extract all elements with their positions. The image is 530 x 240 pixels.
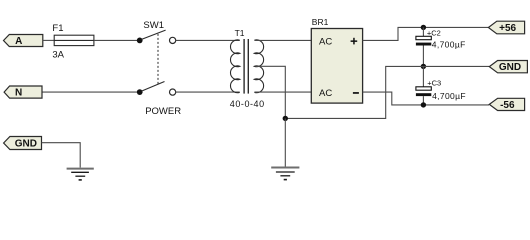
- wire T1 secondary bottom to BR1: [254, 91, 311, 93]
- svg-text:GND: GND: [499, 62, 521, 73]
- svg-text:POWER: POWER: [145, 106, 181, 117]
- svg-text:+C2: +C2: [427, 29, 441, 38]
- svg-text:4,700µF: 4,700µF: [432, 91, 466, 101]
- svg-text:T1: T1: [235, 28, 245, 38]
- port N: [4, 86, 42, 99]
- transformer T1 core: [244, 39, 248, 94]
- svg-text:-56: -56: [500, 100, 515, 111]
- wire GND rail to riser: [285, 66, 489, 118]
- svg-text:4,700µF: 4,700µF: [432, 39, 466, 49]
- transformer T1 primary winding: [230, 40, 239, 93]
- switch SW1 mechanical link: [157, 34, 159, 86]
- ground center: [271, 168, 299, 180]
- svg-text:SW1: SW1: [143, 20, 164, 31]
- transformer T1 secondary winding: [254, 40, 263, 93]
- port GND left: [4, 137, 42, 150]
- junction -56 rail / C3: [421, 102, 426, 107]
- wire BR1 - output to -56 rail: [363, 92, 489, 105]
- fuse F1: [54, 35, 94, 45]
- port A: [4, 35, 43, 48]
- junction +56 rail / C2: [421, 25, 426, 30]
- junction GND rail / C2 C3: [421, 64, 426, 69]
- capacitor C2: [416, 27, 431, 66]
- svg-text:+56: +56: [499, 23, 516, 34]
- wire GND left to ground: [42, 143, 81, 168]
- wire SW1 pole 2 to T1 primary: [176, 91, 240, 93]
- wire SW1 pole 1 to T1 primary: [176, 39, 240, 41]
- junction T1 center tap / ground: [283, 116, 288, 121]
- port +56: [488, 21, 524, 34]
- port -56: [489, 98, 524, 111]
- switch SW1 pole 2: [137, 82, 176, 96]
- svg-text:N: N: [15, 88, 22, 99]
- svg-text:AC: AC: [319, 36, 332, 47]
- ground left: [67, 169, 94, 180]
- port GND right: [489, 61, 527, 74]
- pin label minus: [353, 92, 359, 94]
- svg-text:BR1: BR1: [312, 17, 329, 27]
- bridge rectifier BR1: [311, 29, 362, 104]
- wire F1 to SW1: [94, 39, 137, 41]
- wire T1 secondary top to BR1: [254, 39, 311, 41]
- wire N to SW1 pole 2: [42, 91, 137, 93]
- switch SW1 pole 1: [137, 30, 176, 43]
- svg-text:40-0-40: 40-0-40: [230, 99, 265, 109]
- svg-text:+C3: +C3: [427, 78, 441, 87]
- wire BR1 + output to +56 rail: [363, 27, 489, 40]
- svg-text:GND: GND: [15, 138, 37, 149]
- capacitor C3: [416, 66, 431, 105]
- svg-text:3A: 3A: [52, 49, 64, 60]
- svg-text:AC: AC: [319, 88, 332, 99]
- wire junction to ground: [284, 118, 286, 167]
- wire A to F1: [43, 39, 55, 41]
- svg-text:A: A: [15, 36, 22, 47]
- pin label +: [351, 38, 358, 45]
- svg-text:F1: F1: [52, 23, 63, 34]
- wire T1 center tap: [256, 66, 286, 118]
